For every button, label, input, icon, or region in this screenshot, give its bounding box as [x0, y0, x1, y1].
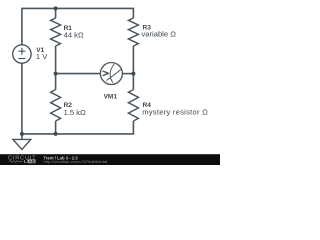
- voltmeter VM1: [100, 63, 122, 85]
- wire middle bottom lead: [55, 121, 57, 134]
- wire bridge right (VM1 to right column): [122, 73, 133, 75]
- logo wave: [9, 161, 23, 163]
- resistor R1: [51, 18, 61, 46]
- wire bridge left (node to VM1): [56, 73, 101, 75]
- svg-text:mystery resistor Ω: mystery resistor Ω: [142, 108, 208, 117]
- ground symbol: [13, 139, 31, 149]
- VM1 needle: [106, 70, 121, 81]
- wire bottom rail with right corner: [22, 121, 133, 134]
- wire left vertical lower (V1 bottom to ground stub): [21, 63, 23, 139]
- resistor R3: [128, 18, 138, 46]
- node junction top middle: [54, 6, 58, 10]
- svg-text:1 V: 1 V: [36, 52, 48, 61]
- wire middle top lead: [55, 8, 57, 18]
- node junction bottom middle: [54, 132, 58, 136]
- svg-text:AB: AB: [28, 159, 35, 164]
- svg-text:variable Ω: variable Ω: [142, 30, 177, 39]
- node junction bottom left: [20, 132, 24, 136]
- wire middle between R1 and node: [55, 46, 57, 90]
- footer bar: [0, 154, 220, 165]
- wire top rail with left and right corners: [22, 8, 133, 44]
- logo LAB highlight box: [28, 160, 36, 164]
- node junction bridge right: [131, 72, 135, 76]
- svg-text:44 kΩ: 44 kΩ: [64, 31, 84, 40]
- svg-text:VM1: VM1: [104, 93, 118, 100]
- voltage source V1: [13, 45, 31, 63]
- wire right between R3 and R4: [132, 46, 134, 90]
- svg-text:1.5 kΩ: 1.5 kΩ: [64, 108, 86, 117]
- VM1 dial arc: [110, 64, 114, 83]
- svg-text:L: L: [24, 159, 27, 164]
- V1 plus sign: [18, 48, 25, 55]
- V1 minus sign: [18, 58, 25, 60]
- resistor R2: [51, 90, 61, 121]
- resistor R4: [128, 90, 138, 121]
- svg-text:http://circuitlab.com/c7576de9: http://circuitlab.com/c7576de9de4af: [43, 159, 108, 164]
- VM1 V glyph: [103, 71, 109, 76]
- node junction middle (bridge left): [54, 72, 58, 76]
